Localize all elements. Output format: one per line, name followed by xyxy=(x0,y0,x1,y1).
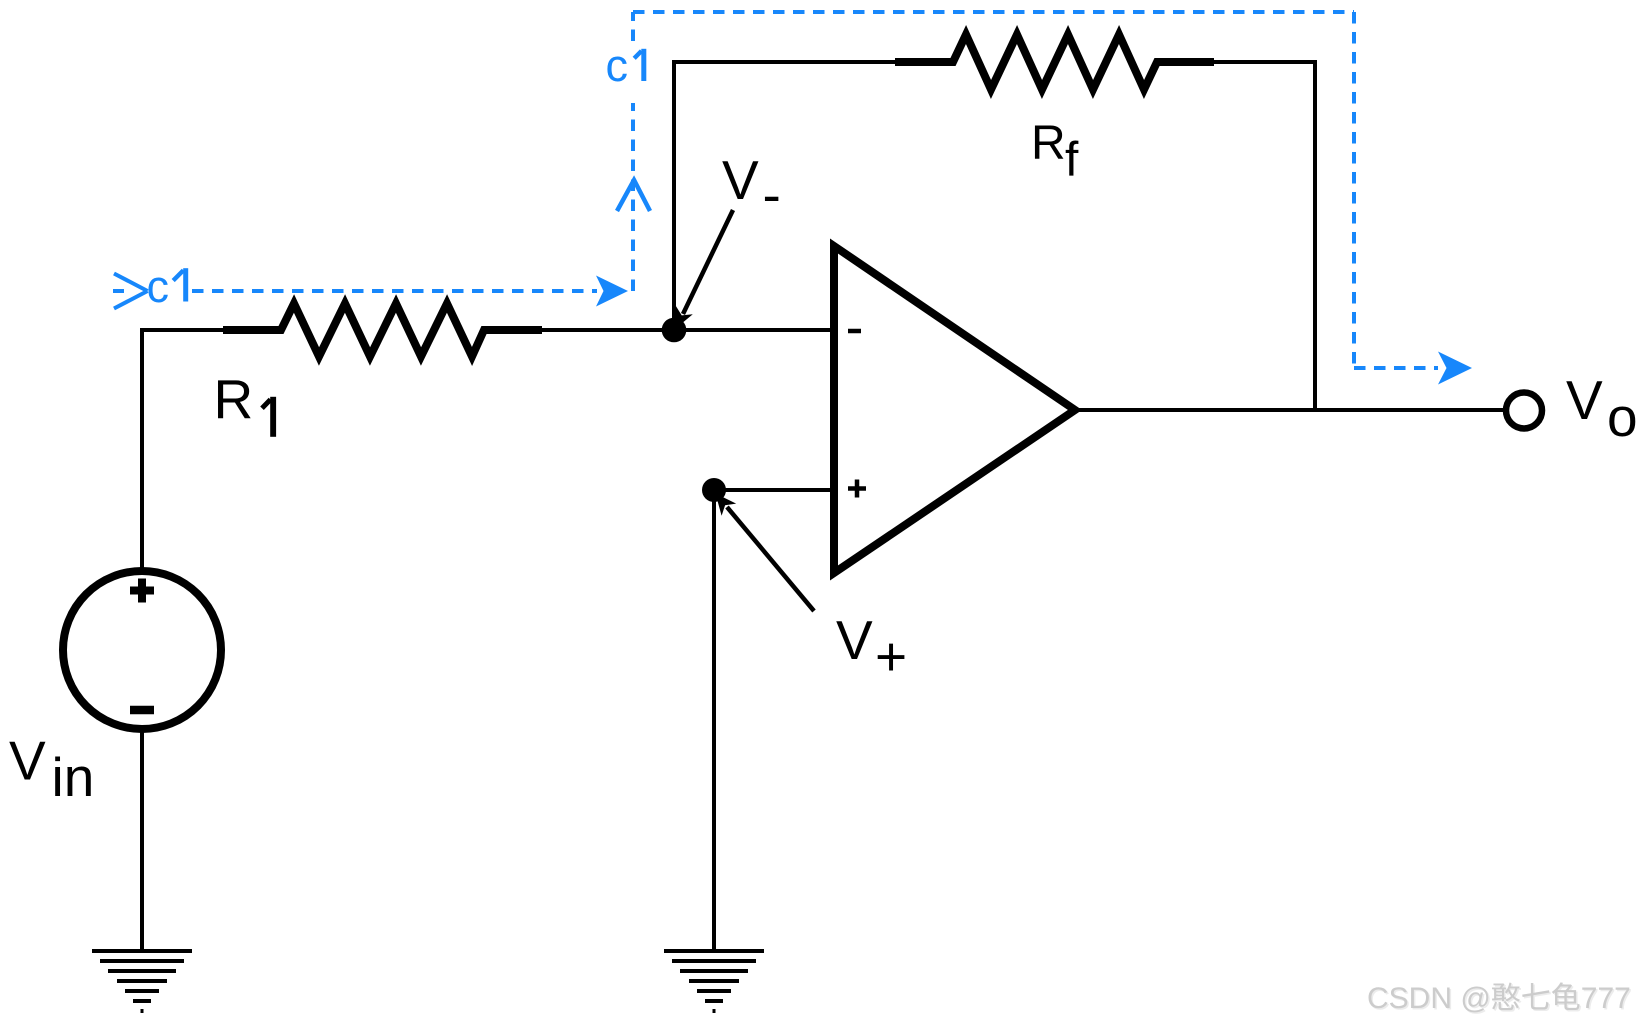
c1 trace: up chevron on vertical segment xyxy=(617,180,650,211)
voltage source Vin xyxy=(63,571,221,729)
op-amp U1 xyxy=(834,246,1075,573)
wire V+ node down to ground xyxy=(712,490,716,951)
svg-text:+: + xyxy=(875,626,907,688)
label V+ with pointer xyxy=(716,494,908,688)
op-amp minus pin mark xyxy=(848,329,861,334)
svg-text:o: o xyxy=(1607,386,1638,448)
svg-text:V: V xyxy=(1566,369,1603,431)
pointer line V+ xyxy=(727,507,814,611)
pointer arrowhead V+ xyxy=(716,494,737,516)
c1 trace: arrowhead toward Vo xyxy=(1438,352,1472,385)
label Rf xyxy=(1031,117,1079,187)
resistor Rf xyxy=(895,35,1214,90)
wire Vin bottom to ground xyxy=(140,729,144,951)
svg-text:V: V xyxy=(836,609,873,671)
c1 trace: top horizontal dashed segment xyxy=(633,10,1354,14)
ground below Vin xyxy=(92,951,192,1011)
terminal Vo circle xyxy=(1506,393,1542,429)
c1 trace: arrowhead into node area xyxy=(596,276,628,307)
resistor R1 xyxy=(223,304,542,357)
ground below V+ node xyxy=(664,951,764,1011)
c1 trace: start chevron xyxy=(114,274,148,309)
wire feedback left vertical and top lead xyxy=(674,62,895,330)
label Vo xyxy=(1566,369,1638,448)
plus mark xyxy=(130,579,154,603)
wire op-amp noninverting input stub xyxy=(714,488,834,492)
pointer arrowhead V- xyxy=(675,306,693,329)
c1 trace: right vertical dashed segment xyxy=(1352,12,1356,368)
wire op-amp output to Vo terminal xyxy=(1075,408,1506,412)
node V- junction dot xyxy=(662,318,687,343)
svg-text:CSDN @憨七龟777: CSDN @憨七龟777 xyxy=(1367,982,1631,1015)
pointer line V- xyxy=(683,210,733,314)
svg-text:f: f xyxy=(1065,134,1079,187)
label Vin xyxy=(9,730,94,809)
svg-text:in: in xyxy=(52,746,95,808)
c1 label on vertical dashed line xyxy=(606,40,647,91)
c1 trace: bottom short dashed segment xyxy=(1354,366,1438,370)
watermark xyxy=(1367,982,1632,1017)
c1 label on left dashed line xyxy=(147,261,189,312)
svg-text:R: R xyxy=(214,368,254,430)
minus mark xyxy=(130,706,154,714)
svg-text:V: V xyxy=(9,730,46,792)
svg-text:R: R xyxy=(1031,117,1066,170)
label V- with pointer xyxy=(675,149,781,329)
svg-text:c: c xyxy=(606,40,629,91)
wire from R1 to op-amp inverting input xyxy=(542,328,834,332)
svg-text:c: c xyxy=(147,261,170,312)
svg-text:V: V xyxy=(722,149,759,211)
node V+ junction dot xyxy=(702,478,726,502)
c1 trace: vertical dashed segment xyxy=(631,12,635,291)
svg-text:-: - xyxy=(763,164,781,226)
c1 trace: left horizontal dashed segment xyxy=(113,289,597,293)
op-amp plus pin mark xyxy=(848,480,866,498)
label R1 xyxy=(214,368,277,437)
wire from Vin top to R1 left lead xyxy=(142,330,223,571)
wire feedback right side down to output xyxy=(1214,62,1315,410)
